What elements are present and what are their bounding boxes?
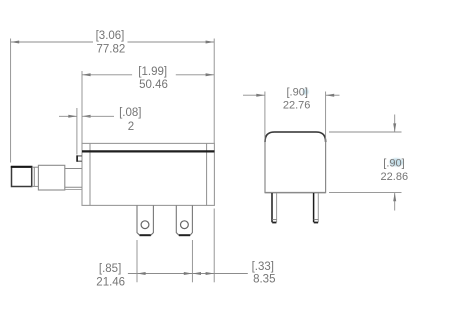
dimension line .33 bbox=[192, 273, 247, 275]
svg-text:[.08]: [.08] bbox=[119, 107, 141, 119]
svg-text:22.86: 22.86 bbox=[381, 171, 409, 183]
bottom edge bbox=[265, 192, 326, 194]
extension line left body edge bbox=[81, 71, 83, 143]
valve body front bbox=[265, 132, 326, 193]
svg-text:[.85]: [.85] bbox=[99, 263, 121, 275]
arrow pointing down bbox=[393, 123, 396, 132]
arrow pointing right bbox=[68, 115, 77, 118]
left pin bbox=[271, 193, 273, 222]
extension line right tab bbox=[191, 240, 193, 282]
arrow right bbox=[206, 73, 215, 76]
arrow right bbox=[184, 272, 193, 275]
svg-text:[1.99]: [1.99] bbox=[138, 66, 167, 78]
svg-text:2: 2 bbox=[128, 121, 134, 133]
nozzle stem bbox=[65, 168, 82, 170]
extension line body right bbox=[213, 209, 215, 283]
arrow left bbox=[137, 272, 146, 275]
svg-text:22.76: 22.76 bbox=[283, 99, 311, 111]
svg-text:50.46: 50.46 bbox=[139, 79, 168, 91]
dark top edge bbox=[265, 132, 326, 142]
right pin bbox=[313, 193, 315, 222]
extension line top bbox=[329, 131, 402, 133]
dimension line 1.99 bbox=[82, 74, 132, 76]
right tab hole bbox=[181, 221, 189, 229]
extension line right (overall, shared) bbox=[213, 39, 215, 144]
dark band line across body bbox=[82, 150, 214, 152]
extension line left bbox=[264, 92, 266, 144]
arrow pointing up bbox=[393, 193, 396, 202]
tail left bbox=[243, 94, 265, 96]
svg-text:77.82: 77.82 bbox=[97, 43, 126, 55]
left terminal tab bbox=[137, 205, 153, 235]
small protrusion on left of body bbox=[77, 156, 82, 161]
tail bottom bbox=[394, 193, 396, 211]
cyan highlight blob bbox=[303, 89, 309, 95]
arrow right bbox=[206, 41, 215, 44]
extension line right bbox=[325, 92, 327, 144]
svg-text:[3.06]: [3.06] bbox=[96, 30, 125, 42]
tail top bbox=[394, 115, 396, 133]
left tab hole bbox=[141, 221, 149, 229]
tail right bbox=[326, 94, 340, 96]
left end-cap line bbox=[89, 143, 91, 205]
arrow pointing left bbox=[82, 115, 91, 118]
arrow pointing left at tab bbox=[192, 272, 201, 275]
svg-text:[.90]: [.90] bbox=[286, 87, 307, 99]
right end-cap line bbox=[206, 143, 208, 205]
leader to label bbox=[82, 115, 114, 117]
dimension line .85 bbox=[128, 273, 192, 275]
barb square (nozzle end) bbox=[12, 167, 32, 187]
extension line left (overall) bbox=[10, 39, 12, 163]
valve body bbox=[82, 143, 214, 205]
extension line left tab bbox=[136, 240, 138, 282]
dimension line 3.06 bbox=[11, 41, 93, 43]
arrow left bbox=[11, 41, 20, 44]
nozzle collar line bbox=[33, 167, 35, 186]
extension line protrusion bbox=[76, 108, 78, 155]
nozzle neck bbox=[32, 166, 39, 168]
arrow pointing right at body edge bbox=[206, 272, 215, 275]
right terminal tab bbox=[176, 205, 192, 235]
nozzle mid block bbox=[38, 165, 64, 190]
dimension tail left bbox=[59, 115, 77, 117]
svg-text:21.46: 21.46 bbox=[96, 277, 125, 289]
arrow pointing left bbox=[326, 94, 335, 97]
svg-text:8.35: 8.35 bbox=[253, 274, 275, 286]
arrow pointing right bbox=[256, 94, 265, 97]
cyan highlight blob right bbox=[389, 158, 403, 166]
svg-text:[.90]: [.90] bbox=[383, 158, 404, 170]
arrow left bbox=[82, 73, 91, 76]
svg-text:[.33]: [.33] bbox=[252, 261, 274, 273]
extension line bottom bbox=[329, 192, 402, 194]
